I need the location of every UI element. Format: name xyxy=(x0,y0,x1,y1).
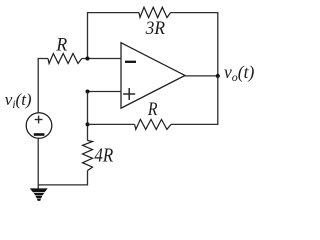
wire R2 to noninverting branch xyxy=(88,123,135,125)
resistor 4R zigzag xyxy=(83,141,93,171)
svg-text:vi(t): vi(t) xyxy=(5,90,32,111)
wire noninverting node down to 4R xyxy=(87,92,89,141)
wire source bottom to ground xyxy=(37,138,39,188)
node junction dot at inverting input xyxy=(86,57,90,61)
svg-text:4R: 4R xyxy=(94,145,113,167)
svg-text:vo(t): vo(t) xyxy=(224,62,254,84)
voltage source vi circle xyxy=(26,113,52,139)
wire left input from source to resistor R1 xyxy=(38,59,48,113)
ground symbol xyxy=(30,188,48,201)
node junction dot at output xyxy=(216,74,220,78)
voltage source minus bar xyxy=(34,133,45,136)
voltage source plus sign xyxy=(35,116,43,124)
wire R1 to inverting input xyxy=(82,58,121,60)
resistor R1 zigzag xyxy=(48,54,82,64)
wire top feedback rail left segment xyxy=(88,13,140,59)
wire output rail down to feedback resistor R2 xyxy=(171,76,218,125)
wire op-amp output xyxy=(185,75,218,77)
node junction dot at noninverting input xyxy=(86,90,90,94)
op-amp plus sign xyxy=(123,88,135,100)
svg-text:R: R xyxy=(55,36,67,56)
wire noninverting input xyxy=(88,91,122,93)
op-amp minus sign xyxy=(125,61,136,63)
op-amp U1 triangle xyxy=(121,43,185,109)
svg-text:3R: 3R xyxy=(145,19,165,39)
wire top feedback rail right segment xyxy=(171,13,218,76)
svg-text:R: R xyxy=(147,99,158,120)
resistor 3R zigzag xyxy=(139,7,171,17)
node junction dot at 4R / R branch xyxy=(86,122,90,126)
wire 4R bottom to ground rail xyxy=(38,171,87,185)
resistor R2 zigzag (feedback to + input) xyxy=(135,119,171,129)
